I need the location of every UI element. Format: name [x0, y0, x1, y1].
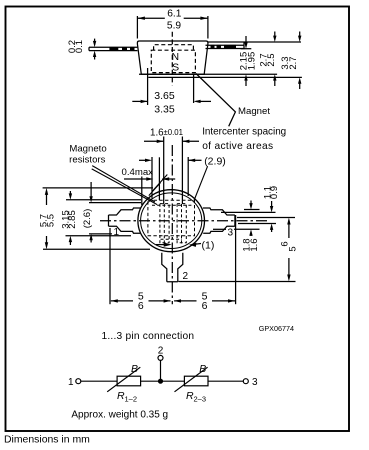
- dim line segments: [111, 300, 133, 302]
- dim 6.1/5.9 top width: [137, 16, 208, 39]
- svg-text:2: 2: [183, 271, 189, 282]
- svg-text:1.6: 1.6: [249, 238, 260, 251]
- dim 5.7/5.5: [43, 188, 153, 249]
- R1-2 variable diagonal: [107, 367, 140, 392]
- wire R2-3 to terminal 3: [208, 380, 243, 382]
- svg-text:1: 1: [114, 227, 120, 238]
- svg-text:3: 3: [252, 377, 258, 388]
- magneto resistors leader lines: [92, 166, 168, 205]
- dim 3.65/3.35 magnet width: [132, 68, 211, 105]
- terminal 1 circle: [76, 379, 81, 384]
- svg-text:(2.6): (2.6): [82, 209, 93, 229]
- dim 3.3/2.7: [299, 32, 301, 90]
- package outer circle: [138, 190, 205, 252]
- ext line from lead 1 tip: [109, 228, 111, 304]
- ref line 6/5 top: [237, 217, 295, 219]
- crossing leader stubs at circle top: [153, 175, 168, 192]
- wire R1-2 to node to R2-3: [141, 380, 185, 382]
- svg-text:of active areas: of active areas: [202, 141, 273, 152]
- arrows 1.8/1.6: [249, 203, 252, 209]
- dim 1.6±0.01: [144, 137, 199, 205]
- svg-text:5.5: 5.5: [46, 214, 57, 227]
- side view: left lead: [89, 47, 137, 50]
- svg-text:0.4max: 0.4max: [122, 167, 154, 178]
- svg-text:6.1: 6.1: [167, 8, 181, 19]
- side view: magnet outer dashed rect: [151, 50, 195, 72]
- magnet label leader: [196, 74, 235, 127]
- svg-text:5: 5: [287, 246, 298, 251]
- dim 1.1/0.9 stubs: [271, 201, 273, 209]
- side view: right lead outline: [206, 42, 245, 49]
- strip 2 dashed centreline: [181, 204, 183, 246]
- side view: body bottom reference line (extends right for dims): [139, 73, 277, 75]
- arrows 6/5: [287, 218, 290, 225]
- ref line lead top ext: [221, 211, 276, 213]
- svg-text:Intercenter spacing: Intercenter spacing: [202, 126, 286, 137]
- ext line from lead 3 tip: [235, 215, 237, 304]
- svg-text:1.6: 1.6: [150, 127, 164, 138]
- svg-text:Approx. weight 0.35 g: Approx. weight 0.35 g: [71, 410, 168, 421]
- dim (2.9): [139, 157, 202, 199]
- svg-text:6: 6: [138, 300, 144, 312]
- leader from (2.9) note to chip corner: [194, 166, 207, 200]
- chip dashed rectangle: [148, 200, 195, 245]
- svg-text:1: 1: [68, 377, 74, 388]
- svg-text:2.5: 2.5: [266, 53, 277, 66]
- svg-text:1...3 pin connection: 1...3 pin connection: [102, 331, 195, 342]
- ref line flare top: [244, 209, 260, 211]
- svg-text:(1): (1): [202, 240, 215, 252]
- svg-text:2.7: 2.7: [288, 56, 299, 69]
- ref line 6/5 bottom (pin2 tip level): [179, 281, 296, 283]
- side view: magnet upper dashed rect: [154, 45, 194, 51]
- resistor strip 1 dashed: [160, 204, 169, 243]
- lead 2 (bottom) outline: [162, 253, 183, 282]
- svg-text:Magneto: Magneto: [69, 144, 106, 155]
- resistor R1-2 box: [117, 376, 141, 386]
- node dot: [158, 379, 163, 384]
- terminal 3 circle: [243, 379, 248, 384]
- svg-text:GPX06774: GPX06774: [259, 324, 294, 333]
- horizontal centreline dash-dot: [100, 220, 270, 222]
- svg-text:0.1: 0.1: [74, 40, 85, 53]
- svg-text:6: 6: [202, 300, 208, 312]
- svg-text:S: S: [172, 61, 179, 73]
- svg-text:5.9: 5.9: [167, 20, 181, 31]
- svg-text:Dimensions in mm: Dimensions in mm: [4, 434, 90, 445]
- small orientation arrow inside circle: [156, 244, 164, 246]
- svg-text:3.35: 3.35: [154, 104, 175, 116]
- svg-text:Magnet: Magnet: [238, 106, 270, 117]
- svg-text:resistors: resistors: [69, 155, 105, 166]
- horizontal dashed detail rows: [152, 204, 192, 206]
- dim (2.6): [89, 182, 141, 243]
- svg-text:(2.9): (2.9): [204, 155, 226, 167]
- (1) label leader with arrow: [192, 244, 201, 245]
- svg-text:2–3: 2–3: [194, 395, 207, 404]
- R2-3 variable diagonal: [175, 367, 208, 392]
- dim 2.7/2.5: [274, 32, 276, 87]
- ref line 1.1/0.9 bottom: [238, 223, 276, 225]
- side view: package body outline: [137, 41, 208, 74]
- dim 0.2/0.1 lead thickness: [94, 39, 96, 60]
- orientation arrow head: [164, 243, 172, 247]
- wire terminal 2 down to node: [160, 361, 162, 382]
- arrows 1.1/0.9: [270, 206, 273, 212]
- lead 1 (left) outline: [109, 208, 141, 233]
- resistor R2-3 box: [184, 376, 208, 386]
- dim 0.4max: [124, 157, 175, 205]
- side view: base bottom line: [148, 76, 302, 78]
- side view: vertical centre dashed line: [171, 32, 173, 85]
- dim 2.15/1.95: [241, 36, 252, 86]
- wire terminal1 to R1-2: [81, 380, 117, 382]
- lead 3 (right) outline: [203, 208, 235, 233]
- side view: right lead top reference line: [208, 41, 301, 43]
- strip 1 dashed centreline: [163, 204, 165, 246]
- svg-text:1–2: 1–2: [125, 395, 138, 404]
- svg-text:1.95: 1.95: [247, 52, 258, 71]
- resistor strip 2 dashed: [177, 204, 186, 243]
- ref line lead bottom ext: [213, 228, 226, 230]
- dim 6/5 line: [288, 221, 290, 239]
- svg-text:±0.01: ±0.01: [164, 128, 183, 137]
- svg-text:3: 3: [228, 228, 234, 239]
- svg-text:B: B: [199, 363, 206, 375]
- terminal 2 circle: [158, 355, 163, 360]
- svg-text:0.9: 0.9: [269, 186, 280, 199]
- vertical centreline dash-dot: [171, 145, 173, 304]
- package inner circle: [141, 193, 202, 249]
- svg-text:2.85: 2.85: [67, 210, 78, 229]
- dim 3.15/2.85: [66, 191, 142, 245]
- svg-text:3.65: 3.65: [154, 90, 175, 102]
- svg-text:6: 6: [279, 241, 290, 246]
- svg-text:B: B: [131, 363, 138, 375]
- side view: left lead crimp fills: [109, 45, 236, 51]
- dim 1.8/1.6 stubs: [250, 201, 252, 207]
- side view: right lead crimp fills: [211, 45, 215, 49]
